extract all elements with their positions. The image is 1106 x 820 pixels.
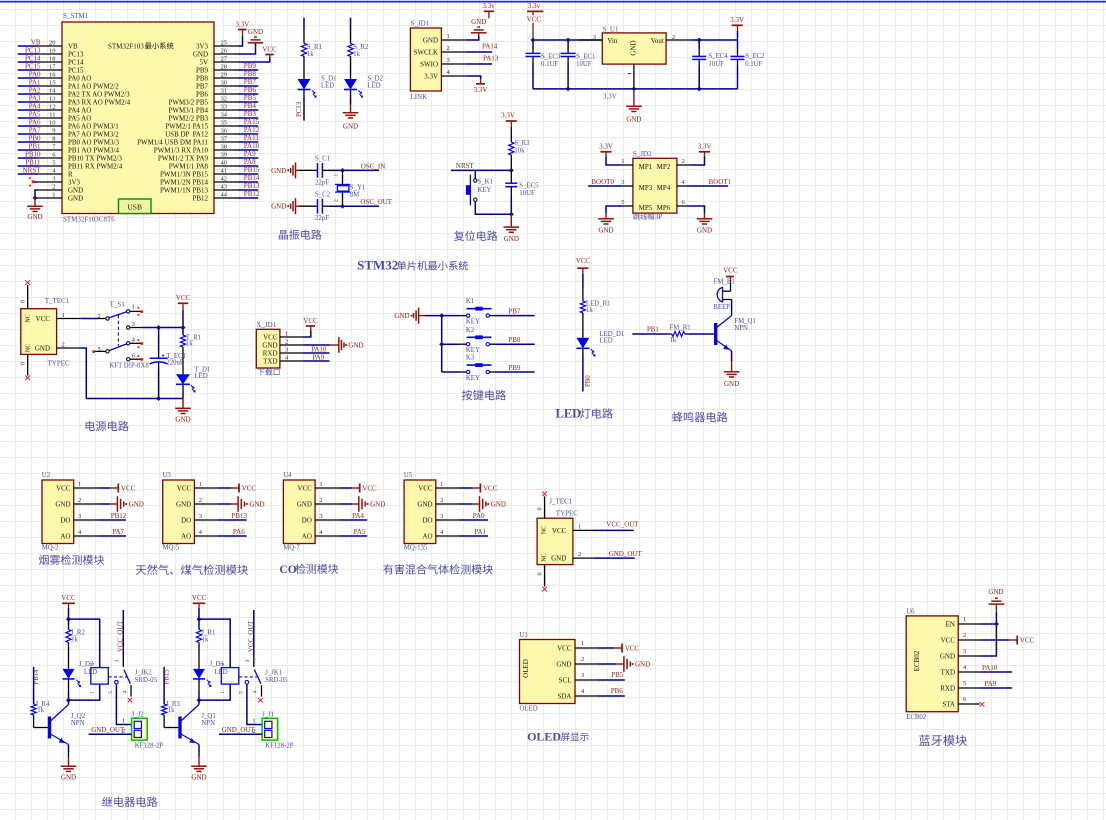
svg-text:PA7: PA7	[29, 127, 41, 135]
svg-text:BOOT0: BOOT0	[591, 178, 614, 186]
svg-text:LED: LED	[556, 407, 582, 421]
svg-text:3.3V: 3.3V	[474, 86, 488, 94]
svg-text:5: 5	[52, 160, 55, 167]
svg-text:GND: GND	[271, 167, 286, 175]
svg-text:0: 0	[537, 572, 544, 575]
svg-text:1: 1	[62, 312, 65, 319]
svg-text:SWCLK: SWCLK	[414, 49, 439, 57]
svg-text:PB15: PB15	[244, 166, 260, 174]
svg-text:PB5: PB5	[611, 671, 624, 679]
svg-text:3: 3	[581, 672, 584, 679]
svg-text:PA1 AO PWM2/2: PA1 AO PWM2/2	[68, 83, 119, 91]
svg-text:PA4: PA4	[29, 103, 41, 111]
svg-text:LINK: LINK	[411, 93, 428, 101]
svg-text:K2: K2	[466, 327, 475, 334]
svg-text:PWM1/2N PB14: PWM1/2N PB14	[160, 179, 209, 187]
svg-text:PA0 AO: PA0 AO	[68, 75, 91, 83]
svg-text:3.3v: 3.3v	[528, 2, 541, 10]
svg-text:1: 1	[285, 330, 288, 337]
svg-text:PB0: PB0	[585, 375, 592, 387]
svg-text:SCL: SCL	[559, 677, 572, 685]
svg-text:3.3V: 3.3V	[698, 143, 712, 151]
svg-text:PA13: PA13	[483, 55, 499, 63]
svg-text:S_EC2: S_EC2	[745, 53, 765, 60]
svg-text:PA3 RX AO PWM2/4: PA3 RX AO PWM2/4	[68, 99, 131, 107]
svg-text:K3: K3	[466, 355, 475, 362]
svg-text:GND: GND	[271, 203, 286, 211]
svg-text:PC15: PC15	[25, 63, 41, 71]
svg-text:2: 2	[98, 313, 101, 320]
svg-text:44: 44	[221, 192, 228, 199]
svg-text:0.1UF: 0.1UF	[541, 61, 558, 68]
svg-text:14: 14	[49, 88, 56, 95]
svg-text:GND: GND	[175, 416, 190, 424]
svg-text:AO: AO	[60, 533, 70, 541]
svg-text:TYPEC: TYPEC	[48, 359, 71, 367]
svg-text:4: 4	[252, 690, 258, 693]
svg-text:GND: GND	[697, 227, 712, 235]
svg-text:PA4 AO: PA4 AO	[68, 107, 91, 115]
svg-text:2: 2	[285, 338, 288, 345]
svg-text:GND: GND	[556, 661, 571, 669]
svg-text:2: 2	[578, 551, 581, 558]
svg-text:VCC: VCC	[61, 594, 76, 602]
svg-text:1: 1	[52, 192, 55, 199]
svg-text:10UF: 10UF	[708, 61, 724, 68]
svg-text:2: 2	[78, 497, 81, 504]
svg-text:S_R2: S_R2	[353, 44, 369, 51]
svg-text:3.3V: 3.3V	[424, 73, 438, 81]
svg-text:10: 10	[49, 120, 56, 127]
svg-text:GND: GND	[504, 235, 519, 243]
svg-text:AO: AO	[302, 533, 312, 541]
svg-text:PA0: PA0	[473, 512, 485, 520]
svg-text:MQ-7: MQ-7	[283, 545, 300, 552]
svg-text:PB9: PB9	[508, 364, 521, 372]
svg-text:PB6: PB6	[611, 687, 624, 695]
svg-text:MP5: MP5	[639, 204, 653, 212]
svg-text:PA6: PA6	[233, 528, 245, 536]
svg-text:VB: VB	[31, 39, 41, 47]
svg-text:36: 36	[221, 128, 228, 135]
svg-text:1k: 1k	[353, 51, 360, 58]
svg-text:J_TEC1: J_TEC1	[549, 498, 572, 506]
svg-text:DO: DO	[60, 517, 70, 525]
svg-text:PWM1/3N PB15: PWM1/3N PB15	[160, 171, 209, 179]
svg-text:LED: LED	[321, 83, 334, 90]
svg-text:32: 32	[221, 96, 228, 103]
svg-text:S_STM1: S_STM1	[63, 12, 89, 20]
svg-text:GND: GND	[176, 501, 191, 509]
svg-text:20: 20	[49, 40, 56, 47]
svg-text:J_R2: J_R2	[71, 630, 86, 637]
svg-text:NC: NC	[25, 344, 31, 352]
svg-text:PB13: PB13	[244, 182, 260, 190]
svg-text:3: 3	[245, 659, 251, 662]
svg-text:GND: GND	[191, 774, 206, 782]
svg-text:PWM1/1 PA8: PWM1/1 PA8	[169, 163, 209, 171]
svg-text:1: 1	[132, 303, 135, 310]
svg-text:33: 33	[221, 104, 228, 111]
svg-text:S_Y1: S_Y1	[350, 184, 366, 191]
svg-text:GND: GND	[35, 345, 50, 353]
svg-text:BEEP: BEEP	[713, 304, 730, 311]
svg-text:43: 43	[221, 184, 228, 191]
svg-text:10UF: 10UF	[519, 190, 535, 197]
svg-text:1: 1	[581, 640, 584, 647]
svg-text:PB1: PB1	[647, 327, 659, 334]
svg-text:PA9: PA9	[312, 354, 324, 362]
svg-text:SDA: SDA	[557, 693, 571, 701]
svg-text:OLED: OLED	[527, 729, 561, 743]
svg-text:PA15: PA15	[244, 118, 260, 126]
svg-text:GND: GND	[193, 51, 208, 59]
svg-text:41: 41	[221, 168, 228, 175]
svg-text:U2: U2	[42, 472, 51, 479]
svg-text:PB1: PB1	[28, 143, 41, 151]
svg-text:PB0 AO PWM3/3: PB0 AO PWM3/3	[68, 139, 119, 147]
svg-text:VCC: VCC	[177, 485, 192, 493]
svg-text:MQ-5: MQ-5	[163, 545, 180, 552]
svg-text:TXD: TXD	[941, 669, 955, 677]
svg-text:1k: 1k	[168, 707, 175, 714]
svg-text:MP1: MP1	[639, 163, 653, 171]
svg-text:U5: U5	[404, 472, 413, 479]
svg-text:TXD: TXD	[263, 358, 277, 366]
svg-text:GND: GND	[55, 501, 70, 509]
svg-text:NRST: NRST	[23, 167, 42, 175]
svg-text:GND: GND	[248, 28, 263, 36]
svg-text:NC: NC	[542, 526, 548, 534]
svg-text:1: 1	[578, 523, 581, 530]
svg-text:VCC: VCC	[723, 267, 738, 275]
svg-text:3.3v: 3.3v	[482, 2, 495, 10]
svg-text:3.3V: 3.3V	[730, 16, 744, 24]
svg-text:PA3: PA3	[29, 95, 41, 103]
svg-text:3.3V: 3.3V	[235, 20, 249, 28]
svg-text:PWM1/3 RX PA10: PWM1/3 RX PA10	[154, 147, 209, 155]
svg-text:STM32F103C8T6: STM32F103C8T6	[63, 216, 115, 224]
svg-text:26: 26	[221, 48, 228, 55]
svg-text:GND: GND	[249, 501, 264, 509]
svg-text:1k: 1k	[202, 637, 209, 644]
svg-text:39: 39	[221, 152, 228, 159]
svg-text:CO: CO	[279, 564, 296, 576]
svg-text:GND: GND	[68, 187, 83, 195]
svg-text:VCC: VCC	[941, 637, 956, 645]
svg-text:15: 15	[49, 80, 56, 87]
svg-text:GND: GND	[370, 501, 385, 509]
svg-text:J_JK1: J_JK1	[265, 669, 282, 676]
svg-text:3V3: 3V3	[68, 179, 81, 187]
svg-text:VCC: VCC	[557, 645, 572, 653]
svg-text:LED: LED	[599, 338, 612, 345]
svg-text:18: 18	[49, 56, 56, 63]
svg-text:2: 2	[581, 656, 584, 663]
svg-text:2: 2	[333, 199, 339, 202]
svg-text:1: 1	[333, 174, 339, 177]
svg-text:NC: NC	[25, 314, 31, 322]
svg-text:GND: GND	[68, 195, 83, 203]
svg-text:2: 2	[319, 497, 322, 504]
svg-text:VCC: VCC	[176, 294, 191, 302]
svg-text:8: 8	[52, 136, 55, 143]
svg-text:PA8: PA8	[244, 158, 256, 166]
svg-text:28: 28	[221, 64, 228, 71]
svg-text:MP6: MP6	[657, 204, 671, 212]
svg-text:29: 29	[221, 72, 228, 79]
svg-text:R: R	[68, 171, 73, 179]
svg-text:30: 30	[221, 80, 228, 87]
svg-text:PWM2/2 PB3: PWM2/2 PB3	[169, 115, 209, 123]
svg-text:2: 2	[90, 663, 96, 666]
svg-text:VB: VB	[68, 43, 78, 51]
svg-text:PB6: PB6	[244, 86, 257, 94]
svg-text:S_D2: S_D2	[368, 76, 384, 83]
svg-text:VCC: VCC	[362, 485, 377, 493]
svg-text:PA5 AO: PA5 AO	[68, 115, 91, 123]
svg-text:3: 3	[132, 321, 135, 328]
svg-text:1: 1	[963, 616, 966, 623]
svg-text:PB12: PB12	[111, 512, 127, 520]
svg-text:STA: STA	[942, 701, 955, 709]
svg-text:U3: U3	[163, 472, 172, 479]
svg-text:VCC: VCC	[418, 485, 433, 493]
svg-text:PWM1/4 USB DM PA11: PWM1/4 USB DM PA11	[137, 139, 208, 147]
svg-text:PWM1/1N PB13: PWM1/1N PB13	[160, 187, 209, 195]
svg-text:PA10: PA10	[311, 346, 327, 354]
svg-text:STM32: STM32	[357, 258, 398, 273]
svg-text:USB: USB	[127, 203, 142, 212]
svg-text:PA2: PA2	[29, 87, 41, 95]
svg-text:PA1: PA1	[29, 79, 41, 87]
svg-text:0.1UF: 0.1UF	[745, 61, 762, 68]
svg-text:RXD: RXD	[263, 350, 278, 358]
svg-text:AO: AO	[422, 533, 432, 541]
svg-text:VCC: VCC	[552, 527, 567, 535]
svg-text:LED: LED	[194, 373, 207, 380]
svg-text:3V3: 3V3	[196, 43, 209, 51]
svg-text:PB9: PB9	[244, 62, 257, 70]
svg-text:VCC: VCC	[242, 485, 257, 493]
svg-text:1k: 1k	[670, 337, 677, 344]
svg-text:0: 0	[20, 300, 27, 303]
svg-text:PA11: PA11	[244, 134, 260, 142]
svg-text:1k: 1k	[71, 637, 78, 644]
svg-text:PB7: PB7	[508, 307, 521, 315]
svg-text:KEY: KEY	[478, 187, 492, 194]
svg-text:42: 42	[221, 176, 228, 183]
svg-text:KF128-2P: KF128-2P	[265, 743, 294, 750]
svg-text:3: 3	[78, 513, 81, 520]
svg-text:OSC_IN: OSC_IN	[361, 163, 386, 171]
svg-text:PB11: PB11	[25, 159, 41, 167]
svg-text:VCC: VCC	[1020, 637, 1035, 645]
svg-text:PA0: PA0	[29, 71, 41, 79]
svg-text:PB8: PB8	[508, 336, 521, 344]
svg-text:10k: 10k	[514, 148, 525, 155]
svg-text:LED: LED	[368, 83, 381, 90]
svg-text:KEY: KEY	[466, 347, 480, 354]
svg-text:3: 3	[319, 513, 322, 520]
svg-text:KFT DIP-8X8: KFT DIP-8X8	[109, 362, 149, 369]
svg-text:J_J1: J_J1	[262, 712, 274, 719]
svg-text:VCC: VCC	[527, 16, 542, 24]
svg-text:GND: GND	[491, 501, 506, 509]
svg-text:PB4: PB4	[244, 102, 257, 110]
svg-text:EN: EN	[946, 621, 955, 629]
svg-text:VCC: VCC	[262, 45, 277, 53]
svg-text:STM32F103: STM32F103	[108, 43, 144, 51]
svg-text:3P: 3P	[655, 213, 663, 221]
svg-text:S_EC1: S_EC1	[576, 54, 595, 61]
svg-text:GND: GND	[262, 342, 277, 350]
svg-text:38: 38	[221, 144, 228, 151]
svg-text:KEY: KEY	[466, 375, 480, 382]
svg-text:PA10: PA10	[244, 142, 260, 150]
svg-text:USB DP PA12: USB DP PA12	[165, 131, 208, 139]
svg-text:J_JK2: J_JK2	[135, 669, 153, 676]
svg-text:1: 1	[90, 691, 96, 694]
svg-text:37: 37	[221, 136, 228, 143]
svg-text:NPN: NPN	[201, 720, 215, 727]
svg-text:1: 1	[252, 718, 255, 725]
svg-text:PB6: PB6	[196, 91, 209, 99]
svg-text:SRD-05: SRD-05	[265, 677, 288, 684]
svg-text:PB13: PB13	[231, 512, 247, 520]
svg-text:PA5: PA5	[354, 528, 366, 536]
svg-text:17: 17	[49, 64, 56, 71]
svg-text:GND: GND	[940, 653, 955, 661]
svg-text:PB1 AO PWM3/4: PB1 AO PWM3/4	[68, 147, 119, 155]
svg-text:T_TEC1: T_TEC1	[45, 297, 70, 305]
svg-text:VCC: VCC	[121, 485, 136, 493]
svg-text:4: 4	[122, 690, 128, 693]
svg-text:X_JD1: X_JD1	[256, 321, 276, 329]
svg-text:1: 1	[78, 481, 81, 488]
svg-text:TYPEC: TYPEC	[556, 510, 579, 518]
svg-text:GND_OUT: GND_OUT	[609, 550, 643, 558]
svg-text:5V: 5V	[199, 59, 208, 67]
svg-text:1: 1	[199, 481, 202, 488]
svg-text:VCC: VCC	[483, 485, 498, 493]
svg-text:PA9: PA9	[244, 150, 256, 158]
svg-text:1: 1	[220, 691, 226, 694]
svg-text:22pF: 22pF	[315, 215, 329, 222]
svg-text:10UF: 10UF	[576, 61, 592, 68]
svg-text:VCC: VCC	[297, 485, 312, 493]
svg-text:VCC: VCC	[625, 645, 640, 653]
svg-text:K1: K1	[466, 298, 474, 305]
svg-text:PB14: PB14	[244, 174, 260, 182]
svg-text:3: 3	[199, 513, 202, 520]
svg-text:ECB02: ECB02	[906, 714, 927, 721]
svg-text:S_R3: S_R3	[514, 140, 530, 147]
svg-text:1: 1	[621, 158, 624, 165]
svg-text:3: 3	[285, 346, 288, 353]
svg-text:FM_R1: FM_R1	[670, 324, 691, 331]
svg-text:27: 27	[221, 56, 228, 63]
svg-text:FM_B1: FM_B1	[714, 279, 735, 286]
svg-text:2: 2	[220, 663, 226, 666]
svg-text:GND: GND	[724, 380, 739, 388]
svg-text:VCC_OUT: VCC_OUT	[606, 521, 639, 529]
svg-text:VCC: VCC	[36, 315, 51, 323]
svg-text:GND: GND	[551, 555, 566, 563]
svg-text:34: 34	[221, 112, 228, 119]
svg-text:VCC: VCC	[56, 485, 71, 493]
svg-text:S_R1: S_R1	[307, 44, 322, 51]
svg-text:NC: NC	[542, 553, 548, 561]
svg-text:22pF: 22pF	[315, 179, 329, 186]
svg-text:GND: GND	[348, 341, 363, 349]
svg-text:U4: U4	[283, 472, 292, 479]
svg-text:11: 11	[49, 112, 55, 119]
svg-text:ECB02: ECB02	[913, 650, 921, 671]
svg-text:SWIO: SWIO	[420, 61, 438, 69]
svg-text:5: 5	[239, 691, 245, 694]
svg-text:GND: GND	[297, 501, 312, 509]
svg-text:PB11 RX PWM2/4: PB11 RX PWM2/4	[68, 163, 123, 171]
svg-text:RXD: RXD	[940, 685, 955, 693]
svg-text:GND: GND	[471, 18, 486, 26]
svg-text:PB3: PB3	[244, 110, 257, 118]
svg-text:3.3V: 3.3V	[599, 143, 613, 151]
svg-text:35: 35	[221, 120, 228, 127]
svg-text:PC13: PC13	[296, 101, 303, 117]
svg-text:5: 5	[621, 199, 624, 206]
svg-text:PA10: PA10	[982, 664, 998, 672]
svg-text:2: 2	[52, 184, 55, 191]
svg-text:MQ-135: MQ-135	[404, 545, 428, 552]
svg-text:VCC: VCC	[576, 257, 591, 265]
svg-text:NPN: NPN	[71, 720, 85, 727]
svg-text:VCC: VCC	[263, 334, 278, 342]
svg-text:PB7: PB7	[244, 78, 257, 86]
svg-text:GND: GND	[394, 312, 409, 320]
svg-text:PB9: PB9	[196, 67, 209, 75]
svg-text:S_C2: S_C2	[315, 191, 331, 198]
svg-text:220uF: 220uF	[166, 360, 184, 367]
svg-text:PB10: PB10	[25, 151, 41, 159]
svg-text:PB8: PB8	[244, 70, 257, 78]
svg-text:BOOT1: BOOT1	[709, 178, 732, 186]
svg-text:S_C1: S_C1	[315, 156, 330, 163]
svg-text:SRD-05: SRD-05	[135, 677, 158, 684]
svg-text:T_S1: T_S1	[110, 301, 126, 309]
svg-text:GND: GND	[630, 40, 638, 55]
svg-text:PWM3/2 PB5: PWM3/2 PB5	[169, 99, 209, 107]
svg-text:2: 2	[62, 341, 65, 348]
svg-text:OLED: OLED	[522, 659, 530, 678]
svg-text:1: 1	[447, 33, 450, 40]
svg-text:GND: GND	[27, 213, 42, 221]
svg-text:PA9: PA9	[985, 680, 997, 688]
svg-text:PA6: PA6	[29, 119, 41, 127]
svg-text:PB10 TX PWM2/3: PB10 TX PWM2/3	[68, 155, 122, 163]
svg-text:S_EC3: S_EC3	[541, 54, 561, 61]
svg-text:0: 0	[537, 507, 544, 510]
svg-text:Vout: Vout	[651, 37, 664, 45]
svg-text:PB12: PB12	[192, 195, 208, 203]
svg-text:J_J2: J_J2	[132, 712, 145, 719]
svg-text:GND: GND	[626, 116, 641, 124]
svg-text:GND: GND	[343, 123, 358, 131]
svg-text:9: 9	[52, 128, 55, 135]
svg-text:1k: 1k	[586, 307, 593, 314]
svg-text:KEY: KEY	[466, 319, 480, 326]
svg-text:PC14: PC14	[25, 55, 41, 63]
